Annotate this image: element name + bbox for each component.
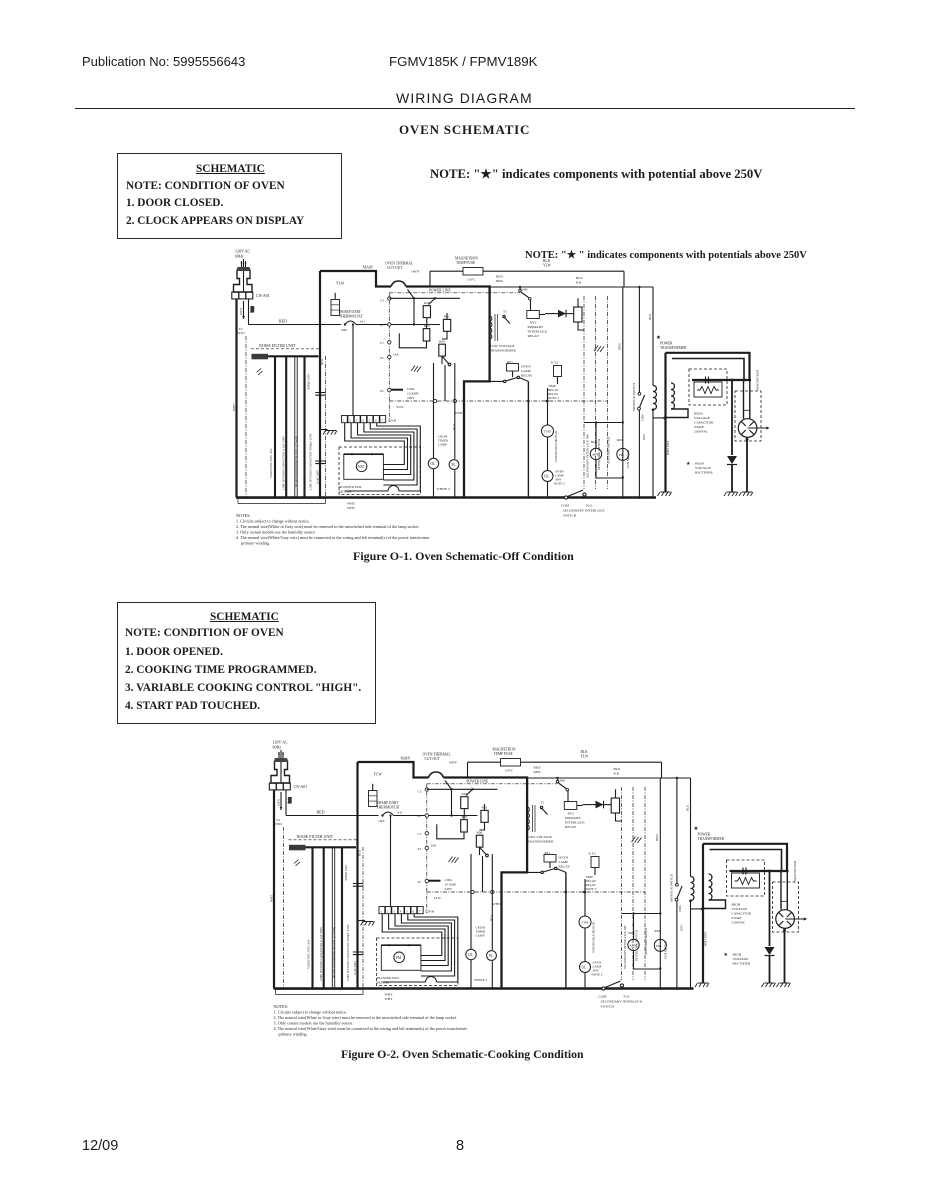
- svg-text:3. Only certain models use the: 3. Only certain models use the humidity …: [236, 529, 316, 534]
- svg-text:2. The neutral wire(White or G: 2. The neutral wire(White or Gray wire) …: [236, 524, 419, 529]
- svg-text:TRANSFORMER: TRANSFORMER: [490, 349, 517, 353]
- svg-text:WHT: WHT: [347, 506, 356, 510]
- svg-text:60Hz: 60Hz: [235, 254, 244, 259]
- svg-text:THERMOSTAT: THERMOSTAT: [339, 315, 363, 319]
- svg-text:SECONDARY INTERLOCK SW: SECONDARY INTERLOCK SW: [586, 434, 590, 478]
- svg-text:#11: #11: [360, 320, 365, 324]
- svg-text:NOISE FILTER UNIT: NOISE FILTER UNIT: [259, 343, 296, 348]
- svg-text:GRN: GRN: [239, 308, 243, 315]
- svg-text:5: 5: [369, 419, 371, 423]
- svg-text:TEMP FUSE: TEMP FUSE: [456, 261, 476, 265]
- svg-text:LAMP: LAMP: [438, 443, 447, 447]
- svg-text:BRN: BRN: [618, 343, 622, 350]
- svg-text:POWER: POWER: [660, 342, 673, 346]
- svg-text:R.B: R.B: [576, 281, 582, 285]
- svg-text:BLOWER FAN: BLOWER FAN: [339, 485, 362, 489]
- svg-text:0.1uF 250V: 0.1uF 250V: [316, 469, 320, 484]
- svg-text:1. Circuits subject to change: 1. Circuits subject to change without no…: [236, 518, 310, 523]
- svg-text:2: 2: [349, 419, 351, 423]
- svg-text:RELAY: RELAY: [521, 374, 533, 378]
- svg-text:RED: RED: [496, 279, 503, 283]
- svg-text:FAN MOTOR: FAN MOTOR: [626, 449, 630, 468]
- svg-text:6: 6: [375, 419, 377, 423]
- svg-text:★: ★: [686, 461, 691, 467]
- svg-text:TRANSFORMER: TRANSFORMER: [660, 346, 687, 350]
- svg-text:WHT GRY: WHT GRY: [666, 440, 670, 455]
- svg-text:MAGNETRON: MAGNETRON: [756, 369, 760, 390]
- svg-text:LAMP: LAMP: [521, 369, 531, 373]
- svg-text:OL: OL: [544, 475, 549, 479]
- svg-text:MAIN: MAIN: [363, 266, 373, 270]
- svg-text:#5: #5: [380, 389, 384, 393]
- svg-text:RECTIFIER: RECTIFIER: [695, 471, 713, 475]
- svg-text:4: 4: [362, 419, 364, 423]
- svg-text:RED: RED: [496, 275, 503, 279]
- svg-text:SECONDARY INTERLOCK: SECONDARY INTERLOCK: [563, 509, 605, 513]
- svg-text:#3: #3: [380, 356, 384, 360]
- svg-text:YLW: YLW: [336, 282, 345, 286]
- svg-text:NOTE 2: NOTE 2: [554, 482, 565, 486]
- svg-text:VARISTOR 270V 10A: VARISTOR 270V 10A: [269, 448, 273, 478]
- svg-text:C004: C004: [407, 387, 415, 391]
- svg-text:BLK: BLK: [320, 358, 324, 365]
- svg-text:YLW: YLW: [543, 264, 552, 268]
- svg-text:MOTOR: MOTOR: [339, 490, 352, 494]
- svg-text:CN-B: CN-B: [388, 419, 397, 423]
- svg-text:GRY: GRY: [642, 433, 646, 440]
- svg-text:INTERLOCK SWITCH: INTERLOCK SWITCH: [597, 438, 601, 470]
- svg-text:LOW VOLTAGE: LOW VOLTAGE: [490, 344, 515, 348]
- svg-text:COM: COM: [561, 504, 570, 508]
- svg-text:YLW: YLW: [396, 405, 404, 409]
- svg-text:SHARP DART: SHARP DART: [339, 310, 362, 314]
- svg-text:VOLTAGE: VOLTAGE: [694, 416, 710, 420]
- svg-text:3: 3: [356, 419, 358, 423]
- svg-text:primary winding.: primary winding.: [241, 540, 270, 545]
- svg-text:CUT-OUT: CUT-OUT: [387, 266, 403, 270]
- svg-text:K05: K05: [424, 324, 430, 328]
- svg-text:K06: K06: [424, 301, 430, 305]
- svg-text:LINE BYPASS CAPACITOR 0.1uF 25: LINE BYPASS CAPACITOR 0.1uF 250V: [282, 435, 286, 490]
- svg-text:RY2: RY2: [530, 321, 537, 325]
- svg-text:TURNTABLE MOTOR: TURNTABLE MOTOR: [554, 430, 558, 462]
- svg-text:#1: #1: [380, 323, 384, 327]
- svg-text:STK3: STK3: [237, 331, 245, 335]
- svg-text:10 AMP: 10 AMP: [407, 392, 419, 396]
- svg-text:MONITOR SWITCH: MONITOR SWITCH: [632, 382, 636, 411]
- svg-text:LINE BYPASS CAPACITOR 4700pF: LINE BYPASS CAPACITOR 4700pF 250V: [309, 433, 313, 490]
- svg-text:BLK: BLK: [543, 259, 551, 263]
- svg-text:OPC: OPC: [341, 328, 348, 332]
- svg-text:110°C: 110°C: [467, 278, 476, 282]
- svg-text:★: ★: [656, 334, 661, 341]
- svg-text:1: 1: [343, 419, 345, 423]
- svg-text:7: 7: [381, 419, 383, 423]
- svg-text:HIGH: HIGH: [694, 412, 703, 416]
- svg-text:C5: C5: [380, 299, 384, 303]
- svg-text:2100VAC: 2100VAC: [694, 430, 709, 434]
- svg-text:CN-A01: CN-A01: [256, 293, 270, 298]
- svg-text:WHT: WHT: [455, 411, 464, 415]
- svg-text:BLK: BLK: [249, 306, 253, 313]
- svg-text:TTM: TTM: [544, 430, 551, 434]
- svg-text:R06: R06: [439, 340, 445, 344]
- svg-text:SWITCH: SWITCH: [563, 514, 577, 518]
- svg-text:RELAY: RELAY: [528, 334, 540, 338]
- svg-text:NOTE 3: NOTE 3: [548, 396, 559, 400]
- svg-text:N.O.: N.O.: [586, 504, 593, 508]
- svg-text:PRIMARY: PRIMARY: [528, 325, 544, 329]
- svg-text:RT1: RT1: [507, 360, 513, 364]
- svg-text:VOLTAGE: VOLTAGE: [695, 466, 711, 470]
- svg-text:C006: C006: [641, 414, 645, 421]
- svg-text:NOTES:: NOTES:: [236, 513, 251, 518]
- svg-text:3000pF 250V: 3000pF 250V: [307, 373, 311, 390]
- svg-text:BLK: BLK: [452, 423, 456, 430]
- svg-text:FM: FM: [358, 465, 364, 469]
- svg-text:K Y2: K Y2: [551, 361, 559, 365]
- svg-text:0.94uF: 0.94uF: [694, 425, 704, 429]
- svg-text:OVEN THERMAL: OVEN THERMAL: [385, 262, 413, 266]
- svg-text:240V: 240V: [407, 396, 415, 400]
- svg-text:RED: RED: [617, 438, 624, 442]
- svg-text:OVEN: OVEN: [521, 365, 531, 369]
- svg-text:MAGNETRON: MAGNETRON: [455, 257, 478, 261]
- svg-text:PL: PL: [452, 463, 456, 467]
- svg-text:T1: T1: [503, 310, 507, 314]
- svg-text:BLK: BLK: [648, 313, 652, 320]
- svg-text:14A: 14A: [393, 353, 399, 357]
- svg-text:RED: RED: [279, 319, 287, 324]
- svg-text:CAPACITOR: CAPACITOR: [694, 421, 714, 425]
- svg-text:4. The neutral wire(White/Gray: 4. The neutral wire(White/Gray wire) mus…: [236, 535, 430, 540]
- svg-text:POWER LINE: POWER LINE: [429, 289, 451, 293]
- svg-text:R02: R02: [444, 315, 450, 319]
- svg-text:WHITE 2: WHITE 2: [437, 487, 450, 491]
- svg-text:140°F: 140°F: [411, 270, 419, 274]
- svg-text:C006: C006: [520, 288, 528, 292]
- svg-text:WHT: WHT: [232, 404, 236, 411]
- svg-text:HIGH: HIGH: [695, 462, 704, 466]
- svg-text:ANTENNA MOTOR: ANTENNA MOTOR: [607, 436, 611, 464]
- svg-text:PM: PM: [619, 453, 624, 457]
- svg-text:OL: OL: [431, 462, 436, 466]
- svg-text:INTERLOCK: INTERLOCK: [528, 330, 548, 334]
- svg-text:C7: C7: [380, 341, 384, 345]
- svg-text:NOISE SUPPRESSION COIL (2.2mH): NOISE SUPPRESSION COIL (2.2mH): [295, 436, 299, 487]
- svg-text:BLK: BLK: [576, 276, 583, 280]
- svg-text:WHT: WHT: [347, 502, 356, 506]
